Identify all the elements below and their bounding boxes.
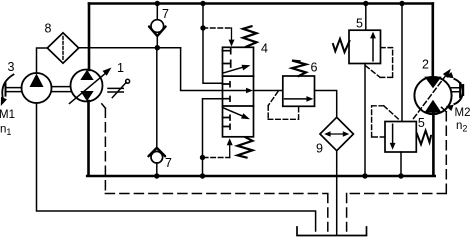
- svg-text:M2: M2: [455, 107, 471, 119]
- relief valve 6 spring: [292, 61, 306, 76]
- wire line A to pump 1 top: [88, 4, 91, 71]
- wire line A top rail: [89, 2, 433, 5]
- node charge/check junction: [155, 45, 160, 50]
- valve 4 bottom pilot line: [203, 157, 229, 159]
- wire line B pump1 bottom to motor bottom: [87, 101, 435, 176]
- charge line from filter: [79, 47, 181, 49]
- svg-text:1: 1: [117, 61, 124, 75]
- wire valve 4 port B to line B: [203, 99, 223, 176]
- motor 2 variable arrow: [414, 77, 446, 119]
- motor rotation arrow: [455, 79, 463, 104]
- wire line A to valve 4 port A: [203, 4, 223, 84]
- charge pump 3: [22, 73, 52, 103]
- cooler 9: [320, 117, 353, 150]
- svg-text:5: 5: [356, 17, 363, 31]
- directional valve 4 body: [223, 47, 254, 137]
- valve 4 middle box symbols: [223, 82, 231, 87]
- pump 3 shaft: [6, 88, 22, 92]
- svg-text:3: 3: [8, 60, 15, 74]
- variable pump 1: [71, 70, 103, 102]
- check valve 7 top: [156, 4, 158, 20]
- check valve 7 bottom: [149, 148, 166, 156]
- svg-text:2: 2: [422, 58, 429, 72]
- wire pump 3 suction from tank: [37, 103, 316, 231]
- svg-text:8: 8: [45, 22, 52, 36]
- relief 5 top pilot line: [366, 48, 393, 78]
- relief 5 bottom spring: [417, 131, 431, 145]
- valve 4 bottom spring: [238, 137, 253, 157]
- wire charge to check valve 7 bottom: [156, 48, 158, 148]
- shaft between pump 3 and pump 1: [52, 87, 71, 92]
- svg-text:7: 7: [165, 156, 172, 170]
- motor 2 shaft: [452, 88, 460, 92]
- svg-text:M1: M1: [0, 109, 15, 121]
- pump 3 rotation arrow: [2, 75, 13, 101]
- wire line A to relief 5 top: [365, 4, 367, 31]
- svg-text:9: 9: [316, 142, 323, 156]
- filter 8: [47, 33, 78, 63]
- relief valve 6: [283, 76, 315, 106]
- wire pump 3 outlet to filter: [37, 48, 48, 73]
- valve 4 top spring: [243, 26, 257, 47]
- pump 1 variable arrow: [70, 72, 108, 104]
- wire line A to relief 5 bottom: [401, 4, 403, 122]
- valve 4 bottom box symbols: [224, 108, 246, 117]
- tank: [297, 227, 367, 236]
- wire relief 5 top to line B: [364, 64, 366, 177]
- pump 1 case drain line: [102, 104, 106, 108]
- relief valve 6 pilot line: [268, 92, 298, 120]
- relief valve 5 bottom: [385, 122, 416, 153]
- relief 5 bottom pilot line: [372, 106, 399, 137]
- motor 2 case drain: [442, 107, 447, 112]
- relief 5 top spring: [333, 39, 350, 52]
- wire charge line drop to valve 4 port P: [181, 48, 223, 91]
- motor 2: [414, 77, 451, 114]
- wire relief 6 to cooler 9: [315, 91, 337, 118]
- wire valve 4 to relief valve 6: [254, 90, 283, 92]
- svg-text:6: 6: [311, 61, 318, 75]
- svg-text:5: 5: [418, 116, 425, 130]
- relief valve 5 top: [349, 30, 381, 63]
- wire line A to motor 2 top: [431, 4, 434, 79]
- pump 1 control lever: [108, 88, 123, 92]
- valve 4 top box symbols: [223, 48, 231, 53]
- wire relief 5 bottom to line B: [400, 152, 402, 176]
- valve 4 top pilot line: [203, 27, 232, 29]
- svg-text:7: 7: [162, 7, 169, 21]
- svg-text:4: 4: [261, 42, 268, 56]
- wire cooler 9 to tank: [336, 151, 338, 235]
